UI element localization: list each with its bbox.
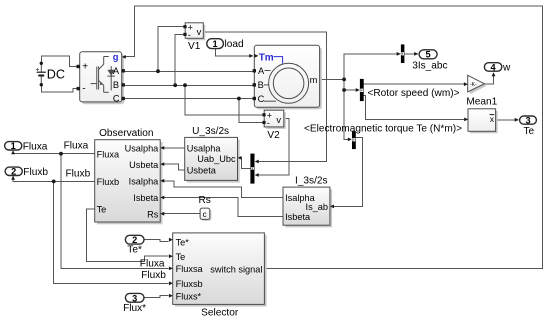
node B junction V1 (173, 83, 177, 87)
svg-text:C: C (258, 94, 265, 104)
block Mean1 (464, 109, 497, 134)
svg-text:Isalpha: Isalpha (129, 177, 160, 187)
svg-text:v: v (276, 115, 281, 125)
wire DC plus (41, 56, 76, 66)
svg-text:Is_ab: Is_ab (306, 202, 328, 212)
node Fluxa junction (59, 152, 63, 156)
bus selector 1 (speed/torque) (356, 79, 364, 101)
node m junction upper (342, 78, 346, 82)
wire Fluxb to Selector Fluxsb (54, 181, 169, 283)
battery DC source (36, 62, 66, 87)
svg-text:Usalpha: Usalpha (187, 143, 222, 153)
svg-text:Usalpha: Usalpha (125, 144, 160, 154)
wire Te to Selector (87, 209, 169, 262)
outport 1 Fluxa (5, 141, 22, 154)
svg-text:1: 1 (213, 39, 218, 49)
node B junction V2 (183, 83, 187, 87)
svg-text:w: w (502, 62, 511, 73)
svg-text:m: m (310, 75, 318, 85)
demux 3Is_abc (397, 44, 405, 63)
wire m to 3Is_abc demux (344, 54, 399, 80)
voltmeter V2 (262, 110, 285, 129)
wire Te* inport to Selector (144, 240, 169, 242)
svg-text:V2: V2 (267, 130, 280, 141)
inverter U1 (universal bridge) (77, 52, 126, 104)
svg-text:Mean1: Mean1 (466, 96, 497, 107)
svg-text:<Electromagnetic torque Te (N*: <Electromagnetic torque Te (N*m)> (304, 123, 462, 134)
svg-text:Te*: Te* (127, 245, 142, 256)
svg-text:x: x (490, 114, 495, 124)
gain -K- (464, 75, 487, 94)
motor (asynchronous machine) (253, 45, 322, 109)
svg-text:Selector: Selector (201, 308, 239, 319)
transistor Q1 with diode D1 icon (91, 57, 116, 93)
node C junction (237, 97, 241, 101)
wire mux output to Uab_Ubc (239, 158, 250, 169)
wire V1 output to mux (203, 32, 326, 162)
svg-text:Observation: Observation (99, 128, 153, 139)
svg-text:2: 2 (132, 235, 137, 245)
wire V2 minus tap from node C (239, 99, 263, 123)
svg-text:Fluxb: Fluxb (23, 167, 48, 178)
wire m down to bus selectors (344, 79, 351, 139)
wire Rs constant (162, 213, 201, 215)
node A junction (156, 69, 160, 73)
svg-text:Fluxa: Fluxa (23, 142, 48, 153)
svg-text:-K-: -K- (470, 82, 477, 88)
svg-text:5: 5 (426, 50, 431, 60)
block Observation (95, 140, 165, 225)
svg-text:+: + (82, 62, 88, 73)
wire phase A (inverter A to motor A) (122, 70, 255, 72)
mux U (Uab/Ubc) (250, 154, 258, 184)
wire gain output to outport 4 (484, 74, 493, 84)
inport 2 Te* (125, 235, 144, 245)
svg-text:-: - (82, 84, 85, 95)
wire V1 minus tap from node B (175, 34, 184, 85)
svg-text:switch signal: switch signal (210, 264, 262, 274)
inport 1 load (207, 39, 253, 58)
wire DC minus (41, 85, 76, 92)
wire Flux* inport to Selector (144, 296, 169, 298)
svg-text:Fluxa: Fluxa (97, 149, 120, 159)
svg-text:Isbeta: Isbeta (133, 193, 159, 203)
node Fluxb junction (52, 180, 56, 184)
wire Mean1 output to outport 3 (496, 119, 519, 121)
voltmeter V1 (183, 23, 205, 41)
wire Fluxa to Selector Fluxsa (61, 154, 169, 269)
svg-text:2: 2 (11, 167, 16, 177)
svg-text:V1: V1 (188, 41, 201, 52)
block U_3s/2s (185, 137, 242, 182)
svg-text:Usbeta: Usbeta (129, 160, 159, 170)
svg-text:Rs: Rs (147, 209, 159, 219)
svg-text:Rs: Rs (199, 195, 211, 206)
block Selector (169, 233, 267, 307)
svg-text:Te: Te (97, 205, 107, 215)
svg-text:Uab_Ubc: Uab_Ubc (197, 154, 236, 164)
svg-text:Usbeta: Usbeta (187, 166, 217, 176)
svg-text:4: 4 (491, 62, 497, 72)
svg-text:B: B (258, 80, 264, 90)
svg-text:g: g (113, 52, 119, 62)
svg-text:Tm: Tm (259, 52, 274, 63)
svg-text:Fluxb: Fluxb (66, 169, 91, 180)
svg-text:I_3s/2s: I_3s/2s (295, 175, 328, 186)
svg-text:Fluxs*: Fluxs* (176, 291, 202, 301)
wire V2 output to mux (256, 119, 289, 175)
wire torque to Mean1 (364, 96, 467, 120)
svg-text:DC: DC (47, 68, 65, 82)
svg-text:Te: Te (176, 252, 186, 262)
wire V1 plus tap from node A (158, 27, 184, 72)
wire Usbeta (162, 164, 185, 170)
wire load to Tm (216, 49, 253, 56)
svg-text:+: + (36, 67, 40, 74)
wire bus selector 2 to Is_ab (331, 137, 362, 206)
wire demux to outport 5 (404, 53, 418, 55)
outport 3 Te (515, 116, 537, 126)
svg-text:C: C (113, 94, 120, 104)
svg-text:A: A (258, 66, 265, 76)
svg-text:Flux*: Flux* (123, 303, 146, 314)
svg-text:load: load (225, 39, 244, 50)
wire rotor speed to gain (364, 83, 467, 85)
wire phase C (inverter C to motor C) (122, 98, 255, 100)
svg-text:-: - (188, 30, 191, 40)
wire switch-signal loop (Selector to inverter g) (123, 6, 543, 269)
svg-text:v: v (197, 27, 202, 37)
outport 4 w (484, 62, 501, 76)
svg-text:<Rotor speed (wm)>: <Rotor speed (wm)> (368, 88, 460, 99)
svg-text:Isbeta: Isbeta (285, 212, 311, 222)
wire Fluxa to outport 1 (13, 151, 95, 154)
svg-text:Fluxsa: Fluxsa (176, 264, 204, 274)
svg-text:Te*: Te* (176, 237, 190, 247)
wire Isbeta (162, 198, 284, 217)
node m junction lower (342, 88, 346, 92)
constant Rs (200, 208, 211, 221)
wire m to bus selector 1 (344, 89, 359, 91)
svg-text:Fluxa: Fluxa (140, 258, 165, 269)
svg-text:Te: Te (523, 126, 534, 137)
svg-text:-: - (267, 118, 270, 128)
svg-text:Fluxb: Fluxb (97, 177, 119, 187)
wire motor m output (320, 78, 345, 80)
svg-text:Fluxa: Fluxa (64, 141, 89, 152)
outport 2 Fluxb (5, 167, 22, 180)
svg-text:1: 1 (11, 141, 16, 151)
wire Isalpha (162, 181, 284, 198)
svg-text:U_3s/2s: U_3s/2s (192, 126, 229, 137)
inport 3 Flux* (125, 293, 144, 303)
svg-text:Fluxb: Fluxb (141, 270, 166, 281)
wire phase B (inverter B to motor B) (122, 84, 255, 86)
svg-text:c: c (203, 210, 207, 219)
wire Fluxb to outport 2 (13, 177, 95, 182)
svg-text:Fluxsb: Fluxsb (176, 279, 203, 289)
junction dots (52, 69, 346, 183)
svg-text:3Is_abc: 3Is_abc (412, 61, 447, 72)
wire Usalpha (162, 147, 185, 149)
bus selector 2 (Is_ab) (348, 131, 356, 149)
outport 5 3Is_abc (414, 50, 437, 60)
block I_3s/2s (283, 187, 334, 227)
svg-text:B: B (113, 80, 119, 90)
svg-text:3: 3 (132, 293, 137, 303)
svg-text:3: 3 (525, 116, 530, 126)
wire V2 plus tap from node B (185, 85, 263, 114)
